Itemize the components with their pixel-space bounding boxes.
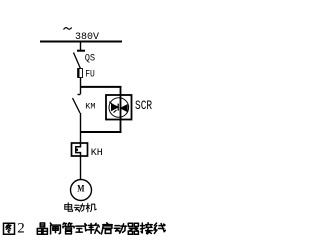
svg-text:2: 2 — [17, 221, 25, 237]
motor M circle — [71, 180, 92, 201]
switch QS fixed contact bar — [77, 50, 85, 52]
label ~380V (supply) — [64, 27, 72, 29]
caption thyristor soft starter wiring — [37, 223, 47, 234]
svg-text:KH: KH — [91, 147, 103, 159]
label dianDongJi (motor) — [65, 203, 73, 212]
wire FU to KM contact — [80, 78, 82, 94]
node top branch junction — [80, 86, 122, 88]
svg-text:FU: FU — [85, 68, 95, 80]
contactor KM fixed contact tick — [78, 94, 81, 96]
wire KH to motor — [80, 156, 82, 180]
thermal relay KH heater jog — [76, 143, 81, 156]
thermal relay KH box — [72, 143, 88, 156]
switch QS blade — [74, 53, 81, 68]
svg-text:QS: QS — [85, 52, 96, 64]
wire bus to QS — [80, 42, 82, 51]
bus 380V supply line — [40, 41, 122, 43]
svg-text:KM: KM — [85, 101, 95, 111]
svg-text:M: M — [77, 184, 84, 194]
wire SCR branch vertical — [120, 86, 122, 132]
contactor KM blade — [73, 98, 81, 113]
node lower branch junction — [80, 131, 122, 133]
SCR anti-parallel thyristor symbol — [109, 102, 127, 113]
wire KM to lower junction — [80, 113, 82, 143]
svg-text:SCR: SCR — [135, 100, 152, 114]
fuse FU — [79, 67, 81, 69]
SCR circle — [109, 98, 129, 118]
SCR module box — [106, 95, 132, 120]
caption figure 2 — [4, 223, 15, 234]
